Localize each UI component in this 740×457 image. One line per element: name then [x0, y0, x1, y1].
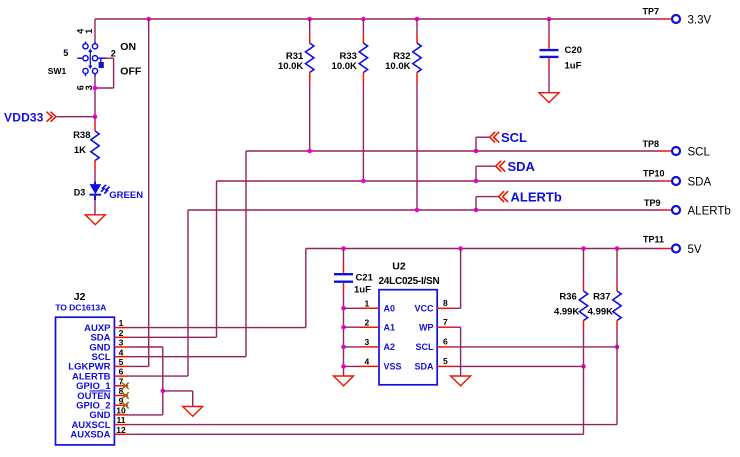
J2 pin 4 stub	[114, 356, 128, 358]
wire: AUXSDA (J2-12)	[128, 433, 583, 435]
pin name WP (U2)	[419, 322, 434, 332]
U2 pin 7 stub	[437, 326, 453, 328]
value 10.0K (R32)	[385, 61, 410, 72]
pin number 1 (U2)	[365, 299, 370, 309]
svg-text:4.99K: 4.99K	[554, 307, 579, 318]
J2 pin 2 stub	[114, 336, 128, 338]
svg-text:GREEN: GREEN	[109, 190, 143, 201]
junction: rail / R31	[307, 17, 312, 22]
resistor R31	[306, 19, 314, 84]
pin number 5 (SW1)	[63, 48, 68, 58]
junction: U2 pin 2 tap	[341, 325, 346, 330]
svg-text:6: 6	[443, 337, 448, 347]
J2 pin 1 stub	[114, 327, 128, 329]
svg-text:7: 7	[443, 317, 448, 327]
svg-text:U2: U2	[392, 260, 406, 272]
wire: ALERTb label stub	[476, 197, 499, 210]
wire: SW1 pin 3 down	[94, 77, 96, 117]
wire: SCL (J2-4) riser	[128, 151, 246, 357]
U2 pin 4 stub	[360, 365, 379, 367]
test point TP7	[643, 7, 681, 24]
pin number 7 (J2)	[119, 376, 124, 386]
wire: VDD33 to R38 node	[57, 116, 95, 118]
pin name GND (J2)	[89, 410, 110, 421]
svg-text:10.0K: 10.0K	[332, 61, 357, 72]
wire: SDA (J2-2) riser	[128, 181, 216, 337]
pin name AUXSDA (J2)	[70, 430, 110, 441]
J2 pin 3 stub	[114, 346, 128, 348]
pin name ALERTB (J2)	[72, 371, 111, 382]
wire: R33 down to bus	[362, 84, 364, 181]
svg-text:C21: C21	[356, 273, 374, 284]
svg-text:SCL: SCL	[416, 342, 435, 352]
pin number 3 (SW1)	[84, 85, 94, 90]
pin number 2 (U2)	[365, 318, 370, 328]
junction: rail / R32	[415, 17, 420, 22]
net name SDA (TP10)	[688, 177, 712, 189]
pin number 12 (J2)	[116, 425, 126, 435]
pin name A2 (U2)	[384, 342, 396, 352]
test point TP11	[643, 235, 680, 253]
pin number 9 (J2)	[119, 396, 124, 406]
net label SDA	[508, 159, 536, 174]
value 1uF (C20)	[565, 61, 582, 72]
label TO DC1613A	[55, 303, 106, 313]
label R37	[593, 292, 610, 303]
svg-text:11: 11	[117, 415, 126, 425]
pin name LGKPWR (J2)	[68, 362, 110, 373]
value 10.0K (R31)	[278, 61, 303, 72]
junction: VDD33 / switch / R38	[93, 114, 98, 119]
label R32	[393, 51, 410, 62]
net chevron SDA	[496, 161, 506, 172]
pin number 8 (J2)	[119, 386, 124, 396]
capacitor C20	[540, 19, 559, 93]
J2 pin 9 stub	[114, 404, 128, 406]
U2 pin 3 stub	[360, 346, 379, 348]
wire: WP to ground	[453, 327, 461, 376]
value 4.99K (R36)	[554, 307, 579, 318]
wire: GND (J2-3)	[128, 347, 163, 415]
svg-text:3: 3	[119, 338, 124, 348]
J2 pin 6 stub	[114, 375, 128, 377]
U2 pin 8 stub	[437, 307, 453, 309]
pin name A1 (U2)	[384, 322, 396, 332]
junction: SDA / R33	[361, 179, 366, 184]
resistor R38	[91, 117, 99, 170]
junction: 5V / C21	[341, 246, 346, 251]
pin number 1 (SW1)	[84, 29, 94, 34]
J2 pin 5 stub	[114, 365, 128, 367]
wire: R37 to AUXSCL	[616, 347, 618, 425]
resistor R36	[579, 249, 587, 367]
svg-text:10.0K: 10.0K	[385, 61, 410, 72]
ground (C21 / U2 address pins)	[334, 376, 354, 386]
wire: R38 to D3	[94, 170, 96, 182]
svg-text:ALERTb: ALERTb	[688, 206, 731, 218]
junction: 5V / VCC riser	[458, 246, 463, 251]
svg-text:SCL: SCL	[688, 147, 711, 159]
junction: ALERTb / R32	[415, 208, 420, 213]
svg-text:2: 2	[119, 328, 124, 338]
svg-text:4: 4	[119, 347, 124, 357]
pin name VCC (U2)	[414, 304, 434, 314]
ground (below C20)	[539, 93, 559, 103]
U2 pin 6 stub	[437, 346, 453, 348]
junction: 5V / R36	[581, 246, 586, 251]
wire: ALERTb bus	[188, 209, 672, 211]
wire: C21 to ground rail (A0/A1/A2/VSS)	[343, 292, 345, 376]
svg-text:R36: R36	[559, 292, 576, 303]
junction: rail / LGKPWR riser	[146, 17, 151, 22]
pin name SDA (U2)	[414, 362, 434, 372]
net chevron ALERTb	[499, 191, 509, 202]
junction: U2 SDA / R36	[581, 364, 586, 369]
label OFF	[120, 66, 142, 78]
svg-text:7: 7	[119, 376, 124, 386]
svg-text:J2: J2	[74, 291, 86, 303]
svg-text:1uF: 1uF	[565, 61, 582, 72]
IC U2 24LC025-I/SN	[379, 290, 437, 385]
net label SCL	[501, 130, 527, 145]
svg-text:10.0K: 10.0K	[278, 61, 303, 72]
no-connect X (J2 pin 9)	[122, 402, 129, 409]
junction: SCL / label stub	[474, 149, 479, 154]
wire: D3 to ground	[94, 200, 96, 215]
wire: 3.3V top rail	[95, 18, 672, 20]
wire: AUXSCL (J2-11)	[128, 424, 617, 426]
svg-text:C20: C20	[565, 45, 582, 56]
resistor R37	[613, 249, 621, 347]
wire: SCL bus	[246, 150, 672, 152]
net name 5V (TP11)	[688, 244, 702, 256]
svg-text:SDA: SDA	[508, 159, 536, 174]
junction: U2 pin 1 tap	[341, 306, 346, 311]
pin name SCL (J2)	[92, 352, 111, 363]
svg-text:ALERTb: ALERTb	[511, 190, 562, 205]
pin number 2 (SW1)	[111, 48, 116, 58]
overline on OUTEN	[90, 390, 111, 392]
wire: tap to U2 pin 3	[344, 346, 361, 348]
svg-text:24LC025-I/SN: 24LC025-I/SN	[379, 276, 440, 287]
pin number 7 (U2)	[443, 317, 448, 327]
pin name OUTEN (J2)	[77, 391, 110, 402]
capacitor C21	[334, 249, 353, 293]
wire: R32 down to bus	[416, 84, 418, 210]
J2 pin 7 stub	[114, 385, 128, 387]
U2 pin 1 stub	[360, 307, 379, 309]
value 4.99K (R37)	[588, 307, 613, 318]
junction: U2 SCL / R37	[615, 345, 620, 350]
junction: U2 pin 3 tap	[341, 345, 346, 350]
svg-text:OFF: OFF	[120, 66, 142, 78]
junction: J2 ground tap	[161, 389, 166, 394]
value 1K	[74, 145, 86, 156]
label C20	[565, 45, 582, 56]
label C21	[356, 273, 374, 284]
svg-text:2: 2	[111, 48, 116, 58]
wire: ground tap	[163, 391, 193, 407]
svg-text:3.3V: 3.3V	[688, 15, 712, 27]
label GREEN	[109, 190, 143, 201]
ground (WP)	[451, 376, 471, 386]
label R36	[559, 292, 576, 303]
svg-text:SDA: SDA	[688, 177, 712, 189]
label J2	[74, 291, 86, 303]
svg-text:3: 3	[84, 85, 94, 90]
value 24LC025-I/SN	[379, 276, 440, 287]
svg-text:AUXSDA: AUXSDA	[70, 430, 110, 441]
pin number 4 (U2)	[365, 357, 370, 367]
wire: U2 SCL to R37	[453, 346, 617, 348]
wire: SW1 pin 2 loop to pin 3	[95, 58, 114, 88]
svg-text:TP9: TP9	[644, 198, 661, 208]
svg-text:A2: A2	[384, 342, 396, 352]
wire: R36 to AUXSDA	[583, 366, 585, 434]
svg-text:VSS: VSS	[384, 362, 402, 372]
wire: R31 down to bus	[309, 84, 311, 151]
label D3	[74, 187, 86, 197]
pin number 6 (J2)	[119, 367, 124, 377]
wire: rail down to SW1 pin 1	[94, 19, 96, 42]
pin name AUXP (J2)	[84, 323, 111, 334]
svg-text:VCC: VCC	[414, 304, 434, 314]
wire: SDA label stub	[476, 166, 496, 181]
net name SCL (TP8)	[688, 147, 711, 159]
pin number 6 (U2)	[443, 337, 448, 347]
pin number 11 (J2)	[117, 415, 126, 425]
pin name AUXSCL (J2)	[71, 420, 110, 431]
no-connect X (J2 pin 7)	[122, 383, 129, 390]
svg-text:ON: ON	[120, 41, 136, 53]
pin number 1 (J2)	[119, 318, 124, 328]
label SW1	[48, 66, 67, 76]
svg-text:4: 4	[365, 357, 370, 367]
wire: AUXP (J2-1) to 5V rail	[128, 327, 306, 329]
net chevron SCL	[490, 132, 500, 143]
value 1uF (C21)	[354, 284, 371, 295]
wire: GND (J2-10)	[128, 414, 163, 416]
svg-text:TP7: TP7	[643, 7, 660, 17]
svg-text:5: 5	[443, 356, 448, 366]
pin number 3 (J2)	[119, 338, 124, 348]
pin number 4 (SW1)	[75, 29, 85, 34]
svg-text:SW1: SW1	[48, 66, 67, 76]
svg-text:1: 1	[119, 318, 124, 328]
wire: LGKPWR (J2-5) riser to 3.3V rail	[128, 19, 149, 366]
no-connect X (J2 pin 8)	[122, 392, 129, 399]
svg-text:A1: A1	[384, 322, 396, 332]
svg-text:1: 1	[84, 29, 94, 34]
svg-text:WP: WP	[419, 322, 434, 332]
svg-text:5: 5	[63, 48, 68, 58]
pin name SDA (J2)	[90, 333, 110, 344]
pin number 4 (J2)	[119, 347, 124, 357]
pin name GPIO_1 (J2)	[76, 381, 111, 392]
wire: SCL label stub	[476, 137, 490, 151]
junction: U2 pin 4 tap	[341, 364, 346, 369]
connector J2	[56, 317, 115, 445]
pin name A0 (U2)	[384, 304, 396, 314]
svg-text:2: 2	[365, 318, 370, 328]
svg-text:4.99K: 4.99K	[588, 307, 613, 318]
svg-text:TO DC1613A: TO DC1613A	[55, 303, 106, 313]
net name ALERTb (TP9)	[688, 206, 731, 218]
test point TP10	[643, 169, 680, 186]
svg-text:VDD33: VDD33	[4, 110, 44, 124]
resistor R32	[413, 19, 421, 84]
wire: 5V rail	[306, 249, 672, 328]
value 10.0K (R33)	[332, 61, 357, 72]
svg-text:D3: D3	[74, 187, 86, 197]
svg-text:6: 6	[119, 367, 124, 377]
label R31	[286, 51, 304, 62]
resistor R33	[359, 19, 367, 84]
LED D3	[90, 182, 110, 201]
pin number 3 (U2)	[365, 337, 370, 347]
svg-text:SCL: SCL	[501, 130, 527, 145]
pin number 5 (J2)	[119, 357, 124, 367]
pin name GPIO_2 (J2)	[76, 401, 110, 412]
svg-text:TP11: TP11	[643, 235, 664, 245]
junction: SCL / R31	[307, 149, 312, 154]
ground (J2)	[183, 407, 203, 417]
pin number 5 (U2)	[443, 356, 448, 366]
junction: SDA / label stub	[474, 179, 479, 184]
svg-text:3: 3	[365, 337, 370, 347]
pin name VSS (U2)	[384, 362, 402, 372]
svg-text:5: 5	[119, 357, 124, 367]
svg-text:SDA: SDA	[414, 362, 434, 372]
wire: U2 SDA to R36	[453, 365, 584, 367]
J2 pin 8 stub	[114, 395, 128, 397]
net label VDD33	[4, 110, 44, 124]
junction: pin3 / pin2 loop	[93, 86, 98, 91]
svg-text:A0: A0	[384, 304, 396, 314]
label ON	[120, 41, 136, 53]
wire: tap to U2 pin 1	[344, 307, 361, 309]
svg-text:8: 8	[443, 298, 448, 308]
svg-text:5V: 5V	[688, 244, 702, 256]
U2 pin 5 stub	[437, 365, 453, 367]
label R33	[339, 51, 356, 62]
U2 pin 2 stub	[360, 326, 379, 328]
label R38	[73, 130, 90, 141]
label U2	[392, 260, 406, 272]
wire: tap to U2 pin 2	[344, 326, 361, 328]
wire: SDA bus	[217, 180, 672, 182]
pin name SCL (U2)	[416, 342, 435, 352]
svg-text:TP8: TP8	[643, 139, 660, 149]
pin number 8 (U2)	[443, 298, 448, 308]
pin number 2 (J2)	[119, 328, 124, 338]
svg-text:1: 1	[365, 299, 370, 309]
svg-text:R38: R38	[73, 130, 90, 141]
pin name GND (J2)	[89, 342, 110, 353]
net label ALERTb	[511, 190, 562, 205]
svg-text:R37: R37	[593, 292, 610, 303]
junction: ALERTb / label stub	[474, 208, 479, 213]
J2 pin 10 stub	[114, 414, 128, 416]
junction: 5V / R37	[615, 246, 620, 251]
junction: rail / C20	[547, 17, 552, 22]
pin number 10 (J2)	[116, 406, 126, 416]
svg-text:12: 12	[116, 425, 126, 435]
svg-text:1uF: 1uF	[354, 284, 371, 295]
wire: ALERTB (J2-6) riser	[128, 210, 188, 376]
power chevron VDD33	[47, 112, 57, 122]
svg-text:TP10: TP10	[643, 169, 665, 179]
junction: rail / R33	[361, 17, 366, 22]
J2 pin 12 stub	[114, 433, 128, 435]
ground (below D3)	[85, 215, 105, 225]
test point TP8	[643, 139, 681, 155]
wire: tap to U2 pin 4	[344, 365, 361, 367]
switch SW1	[77, 42, 105, 77]
net name 3.3V	[688, 15, 712, 27]
pin number 6 (SW1)	[75, 85, 85, 90]
test point TP9	[644, 198, 680, 214]
wire: VCC to 5V rail	[453, 249, 461, 309]
J2 pin 11 stub	[114, 424, 128, 426]
svg-text:1K: 1K	[74, 145, 86, 156]
